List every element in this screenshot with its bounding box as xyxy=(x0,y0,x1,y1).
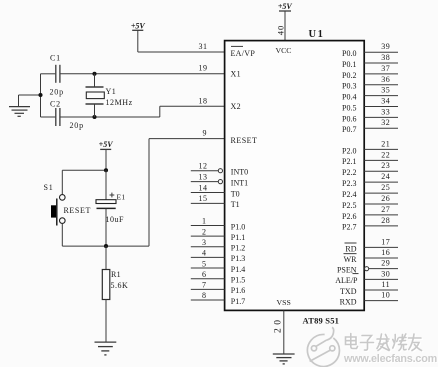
pin name X1 xyxy=(231,69,241,78)
svg-text:P2.1: P2.1 xyxy=(342,157,356,166)
svg-text:P2.4: P2.4 xyxy=(342,190,356,199)
node crystal top xyxy=(92,72,96,76)
pin number 18 xyxy=(199,96,208,105)
svg-text:27: 27 xyxy=(381,205,390,214)
wire reset bottom rail xyxy=(62,245,149,247)
capacitor E1 plus sign xyxy=(110,193,115,198)
svg-text:+5V: +5V xyxy=(99,140,114,149)
wire P0.6 pin 33 xyxy=(364,116,398,118)
svg-text:WR: WR xyxy=(344,255,358,264)
pin name P0.7 xyxy=(342,125,356,134)
pin number 1 xyxy=(202,217,206,226)
svg-text:P2.3: P2.3 xyxy=(342,179,356,188)
wire P1.5 pin 6 xyxy=(191,278,225,280)
label RESET (switch) xyxy=(64,206,91,215)
pin number 8 xyxy=(202,291,206,300)
pin number 30 xyxy=(381,269,390,278)
pin name X2 xyxy=(231,102,241,111)
wire P2.3 pin 24 xyxy=(364,181,398,183)
power +5V (VCC top) xyxy=(278,2,293,11)
wire P0.3 pin 36 xyxy=(364,84,398,86)
svg-text:P1.2: P1.2 xyxy=(231,244,245,253)
pin number 3 xyxy=(202,238,206,247)
svg-text:P2.5: P2.5 xyxy=(342,201,356,210)
capacitor C2 xyxy=(56,108,60,126)
pin name P2.3 xyxy=(342,179,356,188)
pin name T0 xyxy=(231,189,240,198)
svg-text:P1.3: P1.3 xyxy=(231,254,245,263)
pin number 17 xyxy=(381,237,390,246)
pin name P1.7 xyxy=(231,297,245,306)
svg-text:TXD: TXD xyxy=(340,287,357,296)
pin number 21 xyxy=(381,139,390,148)
svg-text:10uF: 10uF xyxy=(106,215,125,224)
pin name P2.1 xyxy=(342,157,356,166)
svg-text:P0.6: P0.6 xyxy=(342,114,356,123)
wire X2 net left segment xyxy=(41,116,56,118)
pin number 13 xyxy=(199,172,208,181)
wire P0.0 pin 39 xyxy=(364,51,398,53)
watermark text xyxy=(343,334,437,366)
node ground wire junction xyxy=(38,93,42,97)
svg-text:2: 2 xyxy=(202,227,206,236)
svg-text:11: 11 xyxy=(381,280,390,289)
wire node to switch xyxy=(62,169,106,171)
svg-text:30: 30 xyxy=(381,269,390,278)
pin name T1 xyxy=(231,200,240,209)
label AT89S51 xyxy=(303,316,340,326)
svg-text:10: 10 xyxy=(381,291,390,300)
label U1 xyxy=(309,29,325,40)
svg-text:20p: 20p xyxy=(70,121,84,130)
pin name P2.2 xyxy=(342,168,356,177)
wire X2 net with jog to IC pin 18 xyxy=(60,106,224,117)
svg-text:21: 21 xyxy=(381,139,390,148)
pin name P2.5 xyxy=(342,201,356,210)
svg-text:8: 8 xyxy=(202,291,206,300)
svg-text:RXD: RXD xyxy=(340,298,357,307)
wire P0.5 pin 34 xyxy=(364,106,398,108)
svg-text:29: 29 xyxy=(381,259,390,268)
svg-text:35: 35 xyxy=(381,86,390,95)
svg-text:P1.1: P1.1 xyxy=(231,233,245,242)
pin name P2.7 xyxy=(342,223,356,232)
svg-text:X2: X2 xyxy=(231,102,241,111)
pin number 11 xyxy=(381,280,390,289)
svg-text:6: 6 xyxy=(202,270,206,279)
svg-text:33: 33 xyxy=(381,107,390,116)
svg-text:17: 17 xyxy=(381,237,390,246)
svg-text:26: 26 xyxy=(381,194,390,203)
svg-text:34: 34 xyxy=(381,97,390,106)
svg-text:9: 9 xyxy=(203,128,207,137)
node reset bottom xyxy=(104,244,108,248)
label C1 value 20p xyxy=(50,88,64,97)
wire P2.7 pin 28 xyxy=(364,225,398,227)
wire P2.1 pin 22 xyxy=(364,159,398,161)
pin number 5 xyxy=(202,259,206,268)
svg-text:P1.6: P1.6 xyxy=(231,286,245,295)
svg-text:P2.7: P2.7 xyxy=(342,223,356,232)
pin number 19 xyxy=(199,63,208,72)
pin number 6 xyxy=(202,270,206,279)
label R1 value 5.6K xyxy=(111,281,129,290)
wire to ground xyxy=(19,94,41,96)
svg-text:C1: C1 xyxy=(50,54,61,63)
svg-text:RESET: RESET xyxy=(64,206,91,215)
watermark logo xyxy=(307,327,339,366)
wire +5V down to node xyxy=(105,149,107,170)
label E1 xyxy=(117,192,126,201)
pin number 39 xyxy=(381,42,390,51)
pin name P0.6 xyxy=(342,114,356,123)
pin name WR xyxy=(344,254,358,264)
svg-text:R1: R1 xyxy=(111,270,121,279)
pin name RESET xyxy=(231,136,258,145)
wire P0.4 pin 35 xyxy=(364,95,398,97)
svg-text:S1: S1 xyxy=(44,183,54,192)
wire P2.5 pin 26 xyxy=(364,203,398,205)
svg-text:14: 14 xyxy=(199,183,208,192)
wire P2.6 pin 27 xyxy=(364,214,398,216)
pin name P1.4 xyxy=(231,265,245,274)
pin name P0.1 xyxy=(342,60,356,69)
svg-text:C2: C2 xyxy=(50,100,61,109)
svg-text:5.6K: 5.6K xyxy=(111,281,129,290)
svg-text:20p: 20p xyxy=(50,88,64,97)
pin number 34 xyxy=(381,97,390,106)
svg-text:P0.0: P0.0 xyxy=(342,49,356,58)
svg-text:RD: RD xyxy=(345,244,356,253)
pin name P2.4 xyxy=(342,190,356,199)
pin name RXD xyxy=(340,298,357,307)
svg-text:12: 12 xyxy=(199,162,208,171)
wire P1.3 pin 4 xyxy=(191,256,225,258)
svg-text:P0.1: P0.1 xyxy=(342,60,356,69)
pin number 9 xyxy=(203,128,207,137)
wire T0 pin 14 xyxy=(191,192,225,194)
crystal Y1 xyxy=(86,74,105,117)
svg-text:INT0: INT0 xyxy=(231,168,248,177)
pin name P1.6 xyxy=(231,286,245,295)
pin number 22 xyxy=(381,150,390,159)
svg-text:U1: U1 xyxy=(309,29,325,40)
svg-text:P0.4: P0.4 xyxy=(342,93,356,102)
wire P0.7 pin 32 xyxy=(364,127,398,129)
wire PSEN pin 29 xyxy=(365,267,399,271)
svg-text:EA/VP: EA/VP xyxy=(231,49,256,58)
pin number 10 xyxy=(381,291,390,300)
pin number 31 xyxy=(199,42,208,51)
svg-text:36: 36 xyxy=(381,75,390,84)
wire P1.4 pin 5 xyxy=(191,267,225,269)
svg-text:28: 28 xyxy=(381,216,390,225)
svg-text:3: 3 xyxy=(202,238,206,247)
svg-text:40: 40 xyxy=(275,25,285,36)
capacitor C1 xyxy=(56,65,60,83)
node reset top xyxy=(104,168,108,172)
pin number 29 xyxy=(381,259,390,268)
label VCC xyxy=(275,46,291,55)
svg-text:25: 25 xyxy=(381,183,390,192)
pin name P0.3 xyxy=(342,82,356,91)
svg-text:18: 18 xyxy=(199,96,208,105)
wire P2.0 pin 21 xyxy=(364,148,398,150)
svg-text:T1: T1 xyxy=(231,200,240,209)
label VSS xyxy=(277,298,291,307)
pin number 16 xyxy=(381,248,390,257)
svg-text:12MHz: 12MHz xyxy=(106,98,133,107)
resistor R1 xyxy=(102,246,110,342)
power +5V (reset) xyxy=(99,140,114,149)
svg-text:15: 15 xyxy=(199,194,208,203)
pin number 4 xyxy=(202,249,206,258)
wire INT0 pin 12 xyxy=(191,169,223,173)
svg-text:38: 38 xyxy=(381,53,390,62)
svg-text:RESET: RESET xyxy=(231,136,258,145)
pin number 28 xyxy=(381,216,390,225)
pin number 36 xyxy=(381,75,390,84)
wire P1.0 pin 1 xyxy=(191,225,225,227)
pin number 27 xyxy=(381,205,390,214)
pin name P1.1 xyxy=(231,233,245,242)
wire INT1 pin 13 xyxy=(191,180,223,184)
label Y1 xyxy=(106,87,117,96)
pin name P0.5 xyxy=(342,103,356,112)
wire P1.1 pin 2 xyxy=(191,235,225,237)
wire P0.1 pin 38 xyxy=(364,62,398,64)
power +5V (top left) xyxy=(131,21,146,30)
wire X1 net to IC pin 19 xyxy=(60,73,224,75)
wire T1 pin 15 xyxy=(191,202,225,204)
wire P1.2 pin 3 xyxy=(191,246,225,248)
op-amp U1 AT89S51 body xyxy=(225,41,365,311)
label C2 value 20p xyxy=(70,121,84,130)
svg-text:AT89 S51: AT89 S51 xyxy=(303,316,340,326)
svg-text:X1: X1 xyxy=(231,69,241,78)
svg-text:31: 31 xyxy=(199,42,208,51)
label C1 xyxy=(50,54,61,63)
svg-text:39: 39 xyxy=(381,42,390,51)
pin name EA/VP xyxy=(231,46,256,58)
svg-text:VCC: VCC xyxy=(275,46,291,55)
svg-text:P0.7: P0.7 xyxy=(342,125,356,134)
pin number 12 xyxy=(199,162,208,171)
pin name TXD xyxy=(340,287,357,296)
pin number 33 xyxy=(381,107,390,116)
pin name P1.5 xyxy=(231,276,245,285)
capacitor E1 xyxy=(96,170,116,246)
pin name P2.6 xyxy=(342,212,356,221)
svg-text:P2.6: P2.6 xyxy=(342,212,356,221)
wire pin 10 xyxy=(364,300,398,302)
wire X1 net left segment xyxy=(41,73,56,75)
svg-text:P0.3: P0.3 xyxy=(342,82,356,91)
svg-text:24: 24 xyxy=(381,172,390,181)
svg-text:Y1: Y1 xyxy=(106,87,117,96)
wire pin 11 xyxy=(364,289,398,291)
pin number 20 (rotated) xyxy=(273,317,283,334)
svg-text:INT1: INT1 xyxy=(231,178,248,187)
svg-text:1: 1 xyxy=(202,217,206,226)
pin name RD xyxy=(345,243,357,253)
wire VSS pin 20 xyxy=(283,310,285,353)
wire pin 17 xyxy=(364,246,398,248)
label E1 value 10uF xyxy=(106,215,125,224)
wire C1-C2 left vertical xyxy=(40,74,42,117)
pin number 38 xyxy=(381,53,390,62)
svg-text:P2.2: P2.2 xyxy=(342,168,356,177)
svg-text:22: 22 xyxy=(381,150,390,159)
pin number 24 xyxy=(381,172,390,181)
svg-text:www.elecfans.com: www.elecfans.com xyxy=(343,353,437,365)
wire pin 16 xyxy=(364,257,398,259)
svg-text:E1: E1 xyxy=(117,192,126,201)
svg-text:P0.2: P0.2 xyxy=(342,71,356,80)
wire P2.4 pin 25 xyxy=(364,192,398,194)
svg-text:ALE/P: ALE/P xyxy=(335,276,358,285)
svg-text:+5V: +5V xyxy=(278,2,293,11)
pin name P1.3 xyxy=(231,254,245,263)
svg-text:P0.5: P0.5 xyxy=(342,103,356,112)
pin name P0.2 xyxy=(342,71,356,80)
label R1 xyxy=(111,270,121,279)
wire P0.2 pin 37 xyxy=(364,73,398,75)
svg-text:VSS: VSS xyxy=(277,298,291,307)
svg-text:19: 19 xyxy=(199,63,208,72)
pin name P0.4 xyxy=(342,93,356,102)
svg-text:23: 23 xyxy=(381,161,390,170)
svg-text:13: 13 xyxy=(199,172,208,181)
svg-text:7: 7 xyxy=(202,281,206,290)
pin number 37 xyxy=(381,64,390,73)
wire P2.2 pin 23 xyxy=(364,170,398,172)
pin number 25 xyxy=(381,183,390,192)
label S1 xyxy=(44,183,54,192)
pin number 14 xyxy=(199,183,208,192)
ground (crystal) xyxy=(9,95,30,116)
wire VCC pin 40 xyxy=(284,11,286,41)
pin name INT0 xyxy=(231,168,248,177)
wire P1.6 pin 7 xyxy=(191,288,225,290)
pin number 40 (rotated) xyxy=(275,25,285,36)
switch S1 xyxy=(51,170,65,246)
svg-text:P1.4: P1.4 xyxy=(231,265,245,274)
wire +5V to EA/VP pin 31 xyxy=(138,30,225,52)
pin name PSEN xyxy=(337,266,359,275)
pin name ALE/P xyxy=(335,276,358,285)
pin name P1.2 xyxy=(231,244,245,253)
pin number 15 xyxy=(199,194,208,203)
svg-text:P1.0: P1.0 xyxy=(231,222,245,231)
pin number 23 xyxy=(381,161,390,170)
ground (R1) xyxy=(95,342,117,355)
svg-text:37: 37 xyxy=(381,64,390,73)
svg-text:32: 32 xyxy=(381,118,390,127)
label C2 xyxy=(50,100,61,109)
svg-text:T0: T0 xyxy=(231,189,240,198)
ground (VSS) xyxy=(273,354,295,364)
svg-text:P2.0: P2.0 xyxy=(342,146,356,155)
pin name P0.0 xyxy=(342,49,356,58)
pin number 2 xyxy=(202,227,206,236)
pin number 7 xyxy=(202,281,206,290)
svg-text:4: 4 xyxy=(202,249,206,258)
pin number 26 xyxy=(381,194,390,203)
svg-text:P1.7: P1.7 xyxy=(231,297,245,306)
label Y1 value 12MHz xyxy=(106,98,133,107)
svg-text:16: 16 xyxy=(381,248,390,257)
pin name P2.0 xyxy=(342,146,356,155)
wire P1.7 pin 8 xyxy=(191,299,225,301)
pin number 32 xyxy=(381,118,390,127)
svg-text:+5V: +5V xyxy=(131,21,146,30)
svg-text:5: 5 xyxy=(202,259,206,268)
wire reset to IC pin 9 xyxy=(149,139,225,247)
pin name P1.0 xyxy=(231,222,245,231)
pin number 35 xyxy=(381,86,390,95)
pin name INT1 xyxy=(231,178,248,187)
svg-text:P1.5: P1.5 xyxy=(231,276,245,285)
node crystal bottom xyxy=(92,115,96,119)
wire pin 30 xyxy=(364,278,398,280)
svg-text:20: 20 xyxy=(273,317,283,334)
